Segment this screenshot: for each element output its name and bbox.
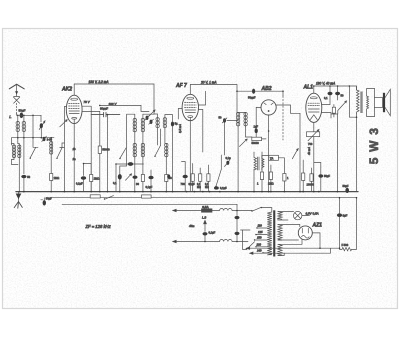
IFT3 bottom wires <box>238 127 246 142</box>
capacitor C15 blob <box>328 92 333 95</box>
resistor R12 <box>283 174 286 182</box>
IFT1 coil A upper <box>133 114 136 132</box>
IFT2 coil C <box>156 115 159 129</box>
tube AF7 cathode <box>188 116 193 118</box>
choke L6 <box>212 208 252 210</box>
tube AF7 anode disc <box>187 97 194 99</box>
tube AB2 envelope <box>261 100 276 115</box>
wire AF7 anode to rail <box>189 85 191 95</box>
svg-text:L.B: L.B <box>202 216 206 220</box>
tube AZ1 anodes <box>302 228 308 233</box>
resistor R10 <box>261 152 263 172</box>
svg-text:0,1µF: 0,1µF <box>76 182 83 186</box>
svg-text:AK2: AK2 <box>61 87 72 93</box>
wire AF7 right <box>199 91 206 152</box>
switch S7 on bus <box>105 196 114 200</box>
svg-text:700: 700 <box>308 142 313 146</box>
svg-text:MΩ: MΩ <box>197 186 201 189</box>
potentiometer P1 arrow <box>240 139 248 147</box>
coil L2 <box>22 121 26 131</box>
tube AK2 anode disc <box>71 98 78 100</box>
wire AB2 top <box>237 91 283 96</box>
capacitor C9 blob <box>148 176 153 180</box>
mains terminal 2 <box>173 240 220 242</box>
antenna arrowhead <box>15 91 18 94</box>
resistor R13 small <box>332 107 335 113</box>
wire osc grid <box>63 143 65 192</box>
svg-text:8µF: 8µF <box>343 213 348 217</box>
speaker cone <box>385 89 390 115</box>
pilot lamp <box>294 211 302 219</box>
potentiometer P3 box <box>307 132 320 137</box>
wire AL1 cathode down <box>313 122 315 131</box>
svg-text:190 V, 40 mA: 190 V, 40 mA <box>316 82 335 86</box>
wire screen drop <box>349 86 356 117</box>
svg-text:MΩ: MΩ <box>205 186 209 189</box>
IFT3 coil G <box>244 113 247 127</box>
wire AK2 anode to top rail <box>73 84 75 95</box>
resistor R17 box on line <box>142 195 152 198</box>
wire screen row y105.4 <box>100 105 149 111</box>
svg-text:240: 240 <box>256 248 262 252</box>
main chassis bus <box>16 191 358 193</box>
wire x337.5 long <box>337 114 339 192</box>
switch S3 <box>120 148 126 158</box>
AF transformer T1 secondary <box>262 156 264 171</box>
wire L2 down <box>23 132 25 174</box>
output transformer T2 primary <box>357 87 360 114</box>
ground symbol <box>18 192 20 202</box>
svg-text:AL1: AL1 <box>303 85 314 91</box>
coil L3 <box>12 144 16 160</box>
speaker magnet bar <box>383 93 385 112</box>
tube AK2 grids <box>69 104 80 109</box>
resistor R11 <box>269 172 272 180</box>
tube AL1 filament <box>310 115 317 120</box>
trimmer arrow <box>149 110 156 117</box>
variable capacitor C-tune <box>39 121 45 130</box>
capacitor C20 blob <box>345 188 349 193</box>
svg-text:150: 150 <box>257 236 262 240</box>
trimmer CT1 <box>146 116 149 120</box>
output transformer T2 secondary <box>367 96 369 109</box>
wire L1 down <box>18 132 20 144</box>
switch S1 <box>30 148 35 158</box>
tube AL1 envelope <box>306 93 322 122</box>
mains terminal 1 <box>173 209 202 211</box>
field coil R18 <box>340 198 357 251</box>
IFT2 top wires <box>154 114 173 122</box>
AF transformer T1 primary <box>254 152 257 192</box>
pickup terminal <box>204 220 207 231</box>
choke L7 <box>219 239 248 241</box>
wire x107.5 down <box>107 115 109 192</box>
wire T2 primary down B+ <box>356 114 358 192</box>
svg-text:AF 7: AF 7 <box>175 83 187 89</box>
transformer T3 selector arm <box>241 230 255 250</box>
IFT2 coil D <box>163 115 166 129</box>
capacitor C13 1uF <box>255 128 258 133</box>
wire AK2 cathode down <box>73 119 75 191</box>
svg-text:0,1µF: 0,1µF <box>209 230 216 234</box>
svg-text:45m: 45m <box>189 224 195 228</box>
svg-text:L: L <box>9 114 11 119</box>
svg-text:AZ1: AZ1 <box>312 223 323 229</box>
svg-text:0,1µF: 0,1µF <box>189 183 196 186</box>
svg-text:1MΩ: 1MΩ <box>268 182 274 186</box>
svg-text:70 V: 70 V <box>84 100 91 104</box>
antenna <box>9 84 24 89</box>
svg-text:0,1µ: 0,1µ <box>226 156 232 160</box>
small blob right <box>167 174 170 178</box>
capacitor C11 cluster <box>225 161 230 167</box>
IFT1 wires mid <box>135 114 154 143</box>
transformer T3 sec HT <box>278 225 282 241</box>
svg-text:50µF: 50µF <box>324 174 330 178</box>
svg-text:20 V, 1 mA: 20 V, 1 mA <box>200 81 217 85</box>
junction dots top <box>17 85 357 249</box>
potentiometer P2 arrow <box>292 149 298 159</box>
resistor R8 <box>207 174 210 182</box>
IFT coil E lower <box>165 143 168 157</box>
capacitor C blob under L2 <box>21 175 26 178</box>
AF transformer T1 core <box>258 157 260 170</box>
wire AL1 right lower <box>321 113 337 119</box>
coil L1 <box>16 121 20 131</box>
svg-text:50µF: 50µF <box>19 109 26 113</box>
svg-text:5 W 3: 5 W 3 <box>367 127 381 164</box>
svg-text:3,5 mA: 3,5 mA <box>178 124 182 133</box>
svg-text:0,1: 0,1 <box>324 96 328 100</box>
resistor R15 <box>310 174 313 182</box>
wire osc coupling <box>116 164 144 192</box>
wire AB2 right <box>276 105 300 113</box>
tube AK2 envelope <box>66 95 82 123</box>
line C <box>62 203 237 205</box>
svg-text:ZF = 128 kHz: ZF = 128 kHz <box>85 224 112 229</box>
transformer T3 sec pilot <box>278 212 282 220</box>
svg-text:1MΩ: 1MΩ <box>94 177 100 181</box>
resistor R5 <box>165 175 168 182</box>
capacitor C-screen bars <box>91 112 120 116</box>
resistor R1 <box>50 158 52 174</box>
wire antenna row <box>17 114 41 116</box>
wire top rail W2 <box>190 85 237 113</box>
wire AF7 cathode down <box>189 118 191 192</box>
capacitor C15b blob <box>335 92 340 95</box>
dashed lead <box>16 103 18 113</box>
capacitor C14 coupling <box>252 89 255 94</box>
IFT1 frame <box>120 114 135 166</box>
trimmer CT3 <box>223 118 226 122</box>
coil L4 <box>18 144 21 192</box>
resistor R7 <box>199 174 202 182</box>
tube AK2 cathode <box>72 117 77 119</box>
resistor R6 <box>191 174 194 182</box>
svg-text:40 mA: 40 mA <box>307 147 311 155</box>
resistor R2 <box>98 146 101 154</box>
wire x300 <box>299 113 301 191</box>
svg-text:50000: 50000 <box>102 148 110 152</box>
svg-text:0,1µF: 0,1µF <box>220 186 227 190</box>
capacitor C7 blob <box>84 163 92 165</box>
trimmer CT2 <box>150 120 153 124</box>
svg-text:1b: 1b <box>73 147 77 151</box>
heater line B <box>47 197 357 199</box>
resistor R4 <box>141 175 144 182</box>
spark gap X <box>14 97 20 104</box>
wire AL1 anode to rail <box>313 86 315 93</box>
capacitor C-ant blob <box>20 113 24 119</box>
svg-text:125: 125 <box>258 230 263 234</box>
svg-text:6,5V 0,5A: 6,5V 0,5A <box>306 211 319 215</box>
resistor R9 box <box>252 137 262 140</box>
TEL jack box <box>269 155 279 160</box>
svg-text:50µF: 50µF <box>46 197 52 201</box>
wire AK2 grid left <box>64 107 66 144</box>
svg-text:1a: 1a <box>73 157 77 161</box>
transformer T3 sec rect fil <box>278 244 282 255</box>
switch S2 <box>57 148 62 158</box>
tube AL1 grids <box>308 103 320 105</box>
wire AK2 side right 2 <box>82 111 100 146</box>
antenna lead wire <box>16 85 18 96</box>
svg-text:10000: 10000 <box>307 182 315 186</box>
capacitor C-pad blob <box>171 122 174 127</box>
speaker driver box <box>375 98 383 108</box>
wire AF7 left grid <box>178 109 182 120</box>
svg-text:700: 700 <box>181 182 186 186</box>
resistor R14 <box>302 160 304 173</box>
IFT3 top wire <box>237 112 246 114</box>
wire rect output lines <box>250 248 340 253</box>
svg-text:103 V: 103 V <box>109 102 118 106</box>
trimmer arrow mid <box>126 174 132 180</box>
wire AZ1 output <box>312 233 320 248</box>
wire AB2 bottom down <box>268 115 270 192</box>
svg-text:193 V, 2.2 mA: 193 V, 2.2 mA <box>89 80 109 84</box>
svg-text:50000: 50000 <box>252 141 260 145</box>
capacitor C8 blob <box>118 174 122 180</box>
tube AZ1 envelope <box>298 226 312 240</box>
capacitor C12 blob <box>214 186 219 189</box>
wire drops to coils <box>18 115 41 137</box>
capacitor C-osc blob <box>128 162 133 166</box>
output transformer T2 core <box>360 92 362 114</box>
capacitor C17 blob <box>43 200 46 205</box>
tube AF7 grids <box>185 103 197 108</box>
wire AL1 screen right <box>322 104 330 106</box>
resistor R3 <box>90 164 92 175</box>
capacitor C19 8uF <box>337 213 342 217</box>
trimmer C3-30 <box>43 137 46 141</box>
capacitor C18 blob <box>203 232 208 235</box>
wire AVC dashed <box>282 96 284 140</box>
wire AK2 side right 1 <box>82 106 91 191</box>
wire top rail W1 <box>74 84 154 114</box>
wire left bracket <box>12 138 19 165</box>
transformer T3 taps <box>255 228 268 253</box>
svg-text:80µµF: 80µµF <box>100 106 108 110</box>
svg-text:220: 220 <box>256 242 262 246</box>
wire TEL <box>262 156 285 174</box>
switch S8 mains <box>252 207 261 211</box>
svg-text:0,1µF: 0,1µF <box>146 185 153 189</box>
bus junction dots <box>18 191 348 193</box>
transformer T3 primary <box>267 212 272 255</box>
mains filter caps <box>236 204 238 215</box>
IFT1 coil B lower <box>141 143 144 158</box>
resistor R16 box on line <box>90 195 100 198</box>
wire row y137.7 <box>12 137 55 139</box>
wires IFT down <box>135 129 167 192</box>
switch S4 <box>155 145 161 156</box>
switch S6 tone <box>338 101 347 111</box>
IFT3 coil F <box>236 113 239 127</box>
capacitor blob mid <box>133 176 138 179</box>
svg-text:110: 110 <box>258 224 263 228</box>
IFT1 coil A lower <box>133 143 136 158</box>
fuse F1 <box>202 209 213 212</box>
capacitor C10 blob <box>183 175 188 179</box>
coil L5 osc <box>50 138 53 158</box>
tube AF7 envelope <box>182 94 198 120</box>
svg-text:0,5A: 0,5A <box>202 205 209 209</box>
wire top rail W3 <box>314 86 357 90</box>
IFT1 coil B upper <box>141 114 144 132</box>
tube AZ1 filament <box>302 236 310 239</box>
svg-text:TA: TA <box>270 156 274 160</box>
switch S5 <box>216 169 221 186</box>
svg-text:1MΩ: 1MΩ <box>54 176 60 180</box>
svg-text:F 500: F 500 <box>342 243 349 247</box>
capacitor C16 blob <box>318 174 323 177</box>
speaker loop wires <box>367 89 375 117</box>
tube AB2 diodes <box>264 103 273 105</box>
svg-text:0,1: 0,1 <box>113 181 117 185</box>
svg-text:50µF: 50µF <box>343 184 349 188</box>
tube AL1 anode disc <box>310 97 317 99</box>
svg-text:50µµF: 50µµF <box>248 96 256 100</box>
variable capacitor osc arrow <box>60 120 67 127</box>
transformer T3 core <box>273 210 275 256</box>
